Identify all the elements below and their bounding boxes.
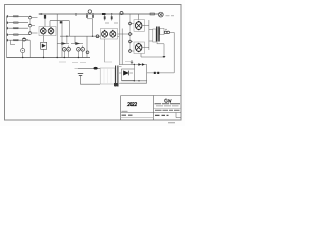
tick on bus [75,13,77,16]
tube V5 enclosure [134,42,145,54]
resistor R2 [14,22,19,23]
electrolytic C13 [81,46,85,58]
vertical x66.9 [66,36,68,43]
wire row2 [9,22,28,24]
capacitor C1 [29,16,32,19]
terminal t2 [157,72,159,74]
drawn-by text [122,110,128,112]
junction dots filter [134,64,140,82]
electrolytic C11 [67,46,71,58]
tube V5 [136,43,142,53]
electrolytic C12 [77,48,81,58]
coupling cap C8 [57,42,69,45]
wire grid links [118,24,135,52]
wire feedback [141,56,164,58]
junction [92,36,93,37]
filter line 2 [121,82,147,84]
grid cap C7 [96,35,99,38]
terminal t1 [154,72,156,74]
vertical x104.5 heater [104,39,106,62]
title block [121,96,181,121]
address line [155,109,180,111]
coupling cap C9 [71,42,83,45]
AC line [75,67,101,70]
label dashes lamp [166,15,175,17]
diode D3 [142,63,144,65]
node n4 [129,50,132,53]
vertical x119.8 [119,14,121,65]
vertical x87 [86,36,88,57]
resistor R4 [14,34,19,35]
wire plate leads [142,20,153,50]
top supply bus [40,13,158,15]
wire row1 [9,15,28,17]
rectifier box D1 [122,69,135,81]
capacitor C3 [29,31,32,34]
junction [66,36,67,37]
capacitor C6 [39,13,44,15]
power transformer T2 [100,66,118,87]
junction dot [163,56,166,58]
B+ bus [119,64,147,66]
riser [133,65,135,70]
mid line [60,35,101,37]
tube V3a [102,30,108,38]
vertical x75 [74,36,76,43]
dropper R10 [104,13,106,20]
junction dots bus [22,57,79,58]
input jack J4 [7,33,9,36]
wire row5 [9,39,30,41]
wire speaker return [170,32,175,73]
company line 2 [156,105,179,107]
switch S1 [94,67,98,70]
wire V1 plate riser [44,14,46,27]
resistor R9 [102,13,106,15]
capacitor C2 [29,24,32,27]
output line [147,72,175,74]
page mark [168,122,175,124]
node column x130 [129,14,131,51]
tube V4 enclosure [134,20,145,32]
resistor R1 [14,16,19,17]
output transformer T1 [153,27,159,43]
node n1 [129,22,132,25]
resistor R3 [14,27,19,28]
logo GW [165,99,172,102]
model number 2022 [128,103,137,106]
electrolytic C5 [21,41,25,58]
label dashes [105,22,118,24]
input jack J3 [7,27,9,30]
vertical x62 [61,21,63,58]
node n2 [129,33,132,36]
resistor R5 [14,39,19,40]
tone network TN1 [86,10,94,19]
vertical x57 [56,14,58,58]
input jack J5 [7,39,9,42]
tube V4 [136,14,142,30]
tube V3 enclosure [101,29,118,40]
wire row3 [9,27,28,29]
wire stub [11,40,15,44]
wire V1 drop [49,21,51,27]
ground rail left [6,16,8,57]
capacitor C4 [22,38,25,41]
wire row5 riser [26,40,31,58]
resistor R6 [44,15,46,19]
label dashes psu [80,62,132,63]
tube V2 triode [41,36,47,58]
filter cap C15 [131,61,133,65]
input jack J1 [7,15,9,18]
capacitor C14 [119,12,124,15]
node n3 [129,40,132,43]
tube V1a [41,27,47,35]
tube V1 enclosure [39,27,56,36]
AC plug P2 [78,73,100,84]
electrolytic C16 [86,51,89,54]
resistor R7 [60,21,63,23]
company line 1 [155,103,181,105]
diode D2 [139,63,141,65]
tube V3b [110,30,116,38]
speaker SP1 [160,28,170,34]
filter line 1 [122,80,147,82]
tube V1b [48,27,54,35]
note dashes [122,114,133,116]
wire V5 cathode [140,54,142,58]
fuse F1 [150,13,155,15]
wire caps to V1 [30,18,38,34]
label dashes mid [59,61,78,64]
vertical x122.2 [121,29,123,65]
border frame [5,5,182,121]
vertical x146.7 [146,65,148,84]
electrolytic C10 [63,48,67,58]
pilot lamp PL1 [158,12,163,17]
dropper R11 [111,13,113,20]
ground bus [7,57,91,59]
input jack J2 [7,21,9,24]
second bus [50,20,69,22]
transformer leads [119,66,122,83]
vertical x92.5 [92,19,94,36]
wire secondary to junction [157,42,164,58]
wire row4 [9,34,30,36]
date row [155,114,169,116]
vertical x69.4 [68,21,70,37]
